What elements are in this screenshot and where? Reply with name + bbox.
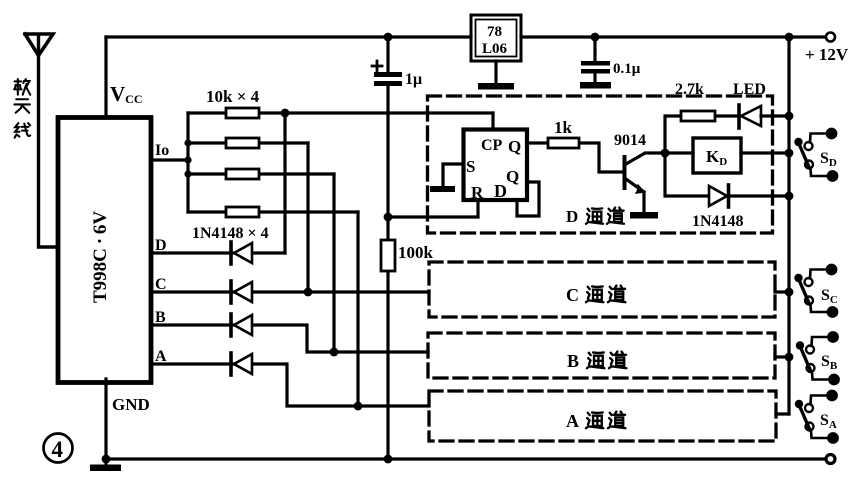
svg-text:B: B [567, 351, 579, 371]
junction R-pin tap [384, 213, 393, 222]
svg-text:1N4148: 1N4148 [692, 213, 744, 230]
pin Io [153, 158, 188, 161]
svg-text:GND: GND [112, 395, 150, 414]
svg-text:1N4148 × 4: 1N4148 × 4 [192, 225, 269, 242]
resistor R1 10k [188, 111, 493, 114]
wire pin A row [153, 364, 429, 406]
wire: +12V right vertical bus [787, 37, 790, 414]
wire Q to 1k [527, 143, 624, 172]
svg-text:Q: Q [506, 167, 519, 186]
svg-text:LED: LED [733, 81, 766, 98]
relay K1 KD [665, 151, 789, 154]
resistor R5 100k [381, 240, 395, 271]
LED D5 [741, 106, 761, 126]
node collector [661, 149, 670, 158]
junction 100k bottom [384, 455, 393, 464]
svg-text:D: D [494, 181, 507, 201]
svg-text:C: C [566, 285, 579, 305]
ground S pin [430, 186, 455, 192]
wire S to ground [443, 164, 463, 186]
wire pin C row [153, 290, 429, 293]
svg-text:100k: 100k [398, 243, 434, 262]
ground symbol main [105, 459, 108, 465]
antenna [25, 34, 53, 56]
resistor R4 10k [188, 210, 358, 213]
B channel dashed box [428, 333, 775, 378]
svg-text:2.7k: 2.7k [675, 81, 704, 98]
regulator U2 78L06 [471, 15, 521, 61]
terminal: +12V [826, 33, 835, 42]
svg-text:1μ: 1μ [405, 71, 422, 88]
wire: resistor bus [186, 113, 189, 212]
switch SA [796, 391, 837, 442]
D channel dashed box [428, 96, 773, 233]
resistor R2 10k [188, 141, 308, 144]
resistor R7 2.7k [681, 111, 715, 121]
diode B 1N4148 [234, 315, 252, 335]
switch SB [797, 333, 838, 384]
diode A 1N4148 [234, 354, 252, 374]
svg-text:T998C · 6V: T998C · 6V [90, 211, 111, 303]
capacitor C1 1u column [386, 37, 389, 459]
wire: +6V top rail left segment [106, 35, 471, 38]
svg-text:D: D [566, 207, 578, 226]
diode C 1N4148 [234, 282, 252, 302]
A channel dashed box [429, 391, 776, 441]
svg-text:4: 4 [52, 437, 64, 462]
svg-text:9014: 9014 [614, 132, 646, 149]
figure number 4 [44, 434, 73, 463]
wire pin D row [153, 251, 285, 254]
wire R1 to diode D row [283, 113, 286, 253]
resistor R3 10k [188, 172, 334, 175]
IC U1 T998C box [58, 118, 151, 383]
svg-text:0.1μ: 0.1μ [613, 61, 641, 77]
wire: GND riser [104, 379, 107, 459]
svg-text:CP: CP [481, 137, 503, 154]
diode D6 1N4148 flyback [665, 153, 789, 196]
wire: +12V top rail right segment [521, 35, 825, 38]
terminal bottom right [826, 455, 835, 464]
svg-text:78: 78 [487, 24, 502, 40]
svg-text:1k: 1k [554, 118, 573, 137]
wire pin B row [153, 325, 428, 352]
wire R pin tap [388, 200, 478, 217]
wire B box to bus [775, 355, 789, 358]
wire A box to bus [776, 412, 789, 415]
svg-text:Io: Io [155, 142, 169, 159]
wire D to Qbar loop [517, 182, 539, 216]
diode D 1N4148 [234, 243, 252, 263]
wire: Vcc riser [104, 37, 107, 116]
svg-text:10k × 4: 10k × 4 [206, 87, 260, 106]
svg-text:+ 12V: + 12V [805, 45, 849, 64]
svg-text:Q: Q [508, 137, 521, 156]
junction GND rail [102, 455, 111, 464]
flip-flop U3 [464, 130, 528, 201]
ground 0.1u [580, 82, 611, 89]
wire C box to bus [775, 290, 789, 293]
svg-text:A: A [566, 411, 579, 431]
ground 78L06 [494, 61, 497, 83]
svg-text:L06: L06 [482, 41, 508, 57]
wire collector up branch [665, 116, 738, 153]
switch SC [796, 265, 837, 316]
svg-text:S: S [466, 157, 475, 176]
resistor R6 1k [548, 138, 579, 148]
capacitor C2 0.1u [593, 37, 596, 82]
label 软天线 (soft antenna), vertical [14, 79, 30, 95]
switch SD [796, 129, 837, 180]
transistor Q1 9014 [623, 155, 627, 190]
wire: ground bottom rail [106, 457, 825, 460]
C channel dashed box [429, 262, 775, 317]
wire CP riser [491, 113, 494, 129]
